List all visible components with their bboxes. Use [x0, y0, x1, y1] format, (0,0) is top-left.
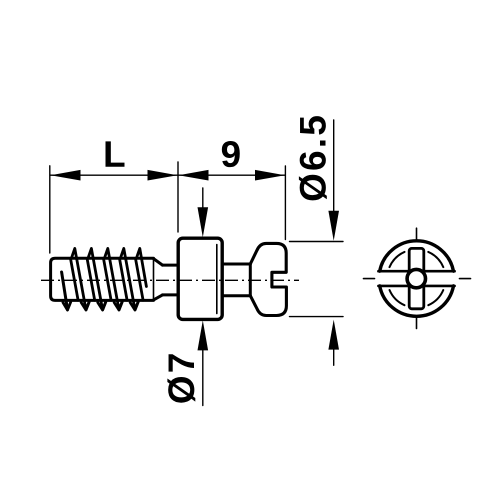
taper from thread to neck: [154, 259, 163, 300]
front view vertical slot: [409, 248, 424, 308]
dimension L extension line left: [49, 166, 51, 253]
thread turn 5 crest with helix end stub: [136, 249, 147, 301]
front view inner circle arc top-right: [428, 252, 443, 267]
front view center pin circle: [407, 269, 425, 287]
dimension L/9 shared extension line at collar: [177, 162, 179, 232]
dimension Ø7 upper leader line: [202, 188, 204, 210]
front view slot band lower line: [378, 285, 454, 288]
arrowhead Ø6.5 up: [328, 320, 339, 350]
front view inner circle arc bottom-left: [390, 290, 405, 305]
front view inner circle arc bottom-right: [428, 290, 443, 305]
front view outer circle top arc: [380, 241, 454, 271]
front view centerline tick right: [460, 278, 471, 280]
dimension 9 extension line right: [284, 166, 286, 240]
screw head side view with slot notch: [250, 243, 286, 315]
collar: [178, 238, 222, 319]
label Ø6.5: [299, 116, 327, 200]
arrowhead Ø6.5 down: [328, 211, 339, 241]
head top extension line: [290, 241, 344, 243]
arrowhead L right: [148, 170, 178, 181]
neck between thread and collar: [163, 265, 179, 295]
front view outer circle bottom arc: [380, 286, 454, 316]
label L: [106, 141, 125, 166]
centerline of side view: [41, 279, 299, 281]
thread turn 3 crest and teeth: [104, 249, 123, 311]
front view centerline tick bottom: [416, 317, 418, 329]
thread end face line: [153, 260, 155, 299]
arrowhead 9 left: [179, 170, 209, 181]
head left face: [249, 264, 252, 296]
front view centerline tick top: [416, 228, 418, 240]
label Ø7: [167, 354, 195, 402]
collar highlight line: [216, 245, 218, 314]
dimension line L: [51, 174, 178, 176]
front view centerline tick left: [364, 278, 375, 280]
dimension line 9: [179, 174, 286, 176]
thread turn 2 crest and teeth: [87, 249, 106, 311]
front view slot band upper line: [378, 270, 454, 273]
thread bottom tooth 1: [63, 302, 71, 310]
threaded shank body: [51, 258, 154, 300]
neck between collar and head: [222, 264, 250, 296]
head bottom extension line: [290, 316, 344, 318]
arrowhead L left: [51, 170, 81, 181]
dimension Ø6.5 leader line upper: [333, 120, 335, 214]
thread turn 1 crest and teeth: [71, 249, 90, 311]
front view inner circle arc top-left: [390, 252, 405, 267]
dimension Ø6.5 leader line lower: [333, 347, 335, 365]
arrowhead Ø7 down: [198, 207, 209, 237]
thread helix start stub: [62, 272, 68, 310]
arrowhead 9 right: [255, 170, 285, 181]
label 9: [222, 141, 240, 167]
dimension Ø7 lower leader line: [202, 348, 204, 406]
arrowhead Ø7 up: [198, 320, 209, 350]
thread turn 4 crest and teeth: [120, 249, 139, 311]
